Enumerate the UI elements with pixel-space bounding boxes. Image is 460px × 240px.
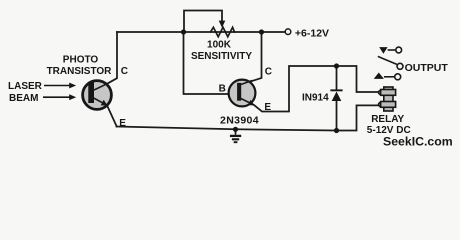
svg-text:E: E	[119, 118, 126, 129]
svg-text:C: C	[265, 67, 272, 78]
svg-text:RELAY: RELAY	[371, 114, 404, 125]
svg-text:OUTPUT: OUTPUT	[405, 62, 449, 74]
svg-text:IN914: IN914	[302, 92, 329, 103]
svg-text:100K: 100K	[207, 40, 232, 51]
svg-text:SeekIC.com: SeekIC.com	[383, 135, 453, 149]
svg-text:B: B	[219, 84, 226, 95]
svg-text:BEAM: BEAM	[9, 93, 38, 104]
svg-text:E: E	[264, 102, 271, 113]
svg-text:TRANSISTOR: TRANSISTOR	[47, 66, 113, 77]
svg-text:LASER: LASER	[8, 81, 43, 92]
svg-text:C: C	[121, 66, 128, 77]
svg-text:SENSITIVITY: SENSITIVITY	[191, 51, 252, 62]
svg-text:PHOTO: PHOTO	[63, 54, 99, 65]
svg-text:2N3904: 2N3904	[220, 115, 259, 127]
svg-text:+6-12V: +6-12V	[295, 28, 329, 40]
